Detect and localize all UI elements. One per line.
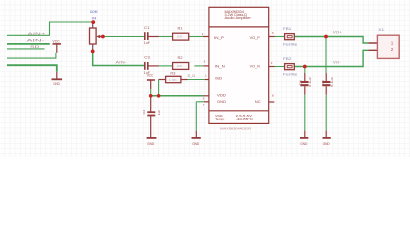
svg-text:X1: X1: [378, 28, 384, 32]
svg-text:R2: R2: [178, 56, 183, 60]
svg-text:FB2: FB2: [283, 57, 291, 61]
svg-text:Ferrite: Ferrite: [283, 42, 297, 46]
svg-text:1.3K: 1.3K: [168, 78, 177, 82]
svg-text:VO+: VO+: [333, 30, 343, 34]
svg-text:VO_N: VO_N: [250, 64, 261, 68]
svg-text:NC: NC: [255, 100, 261, 104]
svg-text:FB1: FB1: [283, 27, 291, 31]
svg-text:1uF: 1uF: [157, 110, 161, 116]
svg-text:VCC: VCC: [53, 40, 61, 44]
svg-text:R4: R4: [92, 16, 96, 20]
svg-text:IN_P: IN_P: [214, 36, 225, 40]
svg-text:/SD: /SD: [215, 77, 223, 81]
svg-text:10K: 10K: [90, 10, 99, 14]
svg-text:2: 2: [391, 47, 394, 52]
svg-text:C2: C2: [142, 109, 146, 114]
svg-text:VO_P: VO_P: [250, 36, 261, 40]
svg-text:1: 1: [391, 41, 394, 46]
svg-text:GND: GND: [217, 100, 227, 104]
svg-text:VDD: VDD: [217, 94, 227, 98]
svg-text:R1: R1: [178, 26, 183, 30]
svg-text:GND: GND: [147, 142, 155, 146]
svg-text:0.1uF: 0.1uF: [330, 77, 334, 87]
svg-text:C5: C5: [321, 80, 325, 85]
svg-text:1uF: 1uF: [144, 71, 151, 75]
svg-text:Ferrite: Ferrite: [283, 72, 297, 76]
svg-text:IN_N: IN_N: [215, 64, 226, 68]
svg-text:Audio Amplifier: Audio Amplifier: [225, 16, 252, 20]
svg-text:GND: GND: [53, 82, 60, 86]
svg-text:AIN+: AIN+: [28, 32, 48, 36]
svg-text:R3: R3: [170, 71, 175, 75]
svg-text:AIN-: AIN-: [116, 60, 128, 65]
svg-text:C3: C3: [144, 56, 150, 60]
svg-text:SD: SD: [30, 45, 40, 49]
svg-text:C1: C1: [144, 26, 150, 30]
svg-text:AIN-: AIN-: [27, 39, 47, 43]
svg-text:GND: GND: [192, 142, 200, 146]
svg-text:-40-85°C: -40-85°C: [236, 117, 253, 121]
svg-text:0.1uF: 0.1uF: [308, 77, 312, 87]
svg-text:C4: C4: [298, 80, 302, 85]
svg-text:MAX98304ADGR: MAX98304ADGR: [220, 127, 252, 131]
svg-text:S_D: S_D: [188, 74, 196, 78]
svg-text:GND: GND: [300, 142, 308, 146]
svg-text:1uF: 1uF: [144, 41, 151, 45]
svg-text:VO-: VO-: [333, 60, 341, 64]
svg-text:20K: 20K: [177, 35, 183, 39]
svg-text:Temp:: Temp:: [215, 117, 224, 121]
svg-text:GND: GND: [323, 142, 331, 146]
svg-text:20K: 20K: [177, 64, 183, 68]
